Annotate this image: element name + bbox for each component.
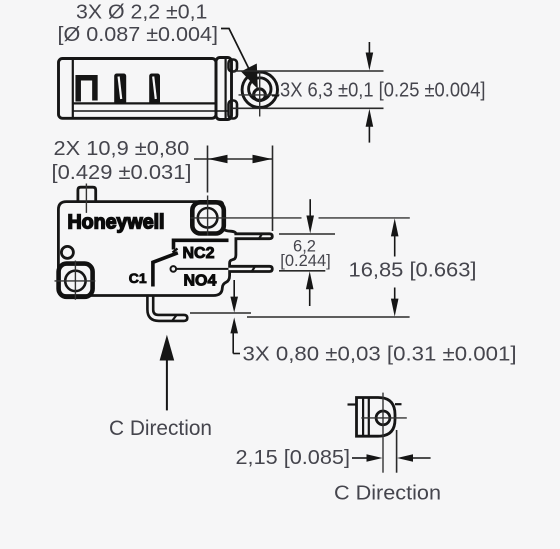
- svg-text:3X Ø 2,2 ±0,1: 3X Ø 2,2 ±0,1: [76, 1, 207, 23]
- dim 3X 6,3 extension lines: [233, 71, 384, 108]
- roller crosshair: [239, 72, 280, 117]
- svg-text:3X 6,3 ±0,1 [0.25 ±0.004]: 3X 6,3 ±0,1 [0.25 ±0.004]: [280, 79, 486, 101]
- bracket arm bottom: [229, 101, 238, 119]
- top view slot 3: [149, 74, 160, 105]
- dim 16,85 dimension line and arrows: [391, 218, 399, 316]
- detail right tab line: [395, 403, 402, 405]
- lever tick: [172, 315, 177, 322]
- detail view roller end: [348, 398, 402, 437]
- mounting hole top right: [198, 208, 218, 228]
- top view slot 1: [78, 78, 95, 102]
- svg-text:C Direction: C Direction: [334, 483, 441, 505]
- end cap inner line: [225, 58, 227, 119]
- NO contact dot: [171, 266, 177, 272]
- dim 6,2 extension lines: [279, 234, 335, 271]
- detail left tab line: [348, 403, 357, 405]
- dim 2X 10,9 extension lines: [194, 146, 273, 232]
- internal NO contact line: [176, 268, 229, 270]
- dim 2X 10,9 arrowheads: [208, 155, 272, 164]
- svg-text:[Ø 0.087 ±0.004]: [Ø 0.087 ±0.004]: [58, 24, 219, 46]
- dim 2,15 arrows: [352, 454, 431, 462]
- detail pin hole: [376, 411, 390, 425]
- roller outer circle: [242, 72, 277, 107]
- internal moving spring: [153, 253, 178, 287]
- svg-text:16,85 [0.663]: 16,85 [0.663]: [349, 260, 477, 282]
- dim 3X 6,3 arrows: [366, 42, 374, 143]
- bottom hole horizontal crosshair: [55, 280, 96, 282]
- plunger center line: [85, 184, 87, 213]
- leader hook for 3X 6,3 text: [272, 95, 279, 97]
- detail inner line 1: [362, 398, 364, 436]
- small circle on left edge: [61, 246, 73, 258]
- svg-text:2,15 [0.085]: 2,15 [0.085]: [236, 447, 351, 469]
- hole vertical crosshair: [207, 196, 209, 236]
- detail crosshair horizontal: [361, 417, 407, 419]
- svg-text:Honeywell: Honeywell: [68, 212, 165, 234]
- leader from dia text to roller: [221, 29, 250, 71]
- plunger: [78, 187, 96, 201]
- roller lever arc: [249, 78, 271, 100]
- svg-text:[0.429 ±0.031]: [0.429 ±0.031]: [52, 162, 192, 184]
- top view inner horizontal line: [73, 102, 216, 104]
- mounting boss bottom left: [59, 264, 93, 297]
- C direction arrow (main view): [160, 335, 175, 411]
- svg-text:NO4: NO4: [184, 273, 217, 290]
- roller pin hole: [254, 89, 266, 101]
- detail inner line 2: [368, 398, 370, 436]
- svg-text:3X 0,80 ±0,03 [0.31 ±0.001]: 3X 0,80 ±0,03 [0.31 ±0.001]: [243, 343, 517, 365]
- mounting boss top right: [192, 202, 224, 233]
- detail right tangent extension line: [396, 430, 398, 473]
- terminal tick NC2: [259, 233, 263, 240]
- svg-text:2X 10,9 ±0,80: 2X 10,9 ±0,80: [54, 138, 190, 160]
- lever terminal bottom: [147, 297, 187, 321]
- terminal tick NO4: [252, 266, 256, 272]
- lever bottom extension line (16,85 bottom reference): [247, 316, 410, 318]
- top view slot 2: [114, 74, 126, 105]
- bottom hole vertical crosshair: [74, 261, 76, 300]
- dim 6,2 arrows: [306, 199, 314, 306]
- top view end cap: [216, 58, 232, 120]
- bracket arm top: [229, 60, 238, 72]
- svg-text:C1: C1: [129, 270, 147, 286]
- top view body: [59, 58, 238, 120]
- svg-text:[0.244]: [0.244]: [280, 252, 330, 270]
- hole center line long (16,85 top reference): [191, 217, 302, 219]
- svg-text:NC2: NC2: [183, 245, 215, 262]
- detail center line vertical: [382, 393, 384, 473]
- top view thin lower line: [73, 110, 229, 112]
- internal NC contact bar: [173, 240, 229, 252]
- top view inner vertical line: [72, 59, 74, 118]
- svg-text:C Direction: C Direction: [109, 417, 212, 440]
- dim 3X 0,80 arrows: [230, 280, 240, 354]
- mounting hole bottom left: [65, 271, 85, 291]
- lever top surface extension line: [190, 312, 251, 314]
- main view body outline: [58, 202, 272, 296]
- leader arrowhead at roller: [241, 64, 258, 90]
